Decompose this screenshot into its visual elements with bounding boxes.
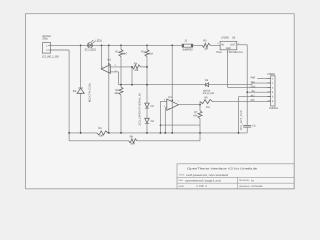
resistor R1 <box>202 40 210 51</box>
node junction IC1 output feed <box>101 44 103 46</box>
svg-text:R9: R9 <box>98 127 102 130</box>
svg-text:self-powered, non isolated: self-powered, non isolated <box>186 174 229 177</box>
node junction R4 right <box>146 66 148 68</box>
wire IC2 inverting stub <box>160 100 166 102</box>
node junction zener top <box>80 44 82 46</box>
svg-text:SIG: SIG <box>251 81 255 84</box>
node junction rail lower return <box>199 132 201 134</box>
svg-text:IC1: IC1 <box>168 96 173 99</box>
svg-text:TO92: TO92 <box>216 51 222 54</box>
resistor R4 <box>132 62 141 72</box>
node junction IC2 out <box>199 104 201 106</box>
wire CONN2 pin1 stub <box>257 77 270 79</box>
wire R4 to diode chain <box>141 66 148 68</box>
svg-text:10k: 10k <box>134 69 139 72</box>
wire divider mid line to D4 <box>119 84 206 86</box>
node junction rail IC2 power <box>171 132 173 134</box>
svg-text:JUMPER2: JUMPER2 <box>182 48 193 51</box>
title block <box>177 164 294 189</box>
node junction rail IC2 plus <box>164 132 166 134</box>
svg-text:JC3_LEDS: JC3_LEDS <box>84 49 96 52</box>
wire zener chain upper <box>80 45 82 88</box>
svg-text:CONN1: CONN1 <box>42 38 48 41</box>
resistor R3 <box>141 45 152 56</box>
wire pin5 vertical <box>238 97 240 133</box>
wire return rail up <box>199 133 201 141</box>
connector CONN2 <box>267 73 278 110</box>
svg-text:R5: R5 <box>204 96 208 99</box>
svg-text:FILE:: FILE: <box>179 179 184 182</box>
node junction rail feed <box>171 44 173 46</box>
svg-text:ECSnaith: ECSnaith <box>252 185 264 188</box>
LED LED1 <box>84 40 102 52</box>
svg-text:DRAWN BY:: DRAWN BY: <box>239 185 251 188</box>
wire top rail (OT line) <box>51 44 182 46</box>
node junction rail diode chain <box>146 132 148 134</box>
svg-text:IC1: IC1 <box>107 59 112 62</box>
wire feedback right upper <box>199 102 201 111</box>
wire CONN1 pin2 <box>51 49 69 51</box>
wire loop to rail <box>199 125 201 133</box>
node junction rail IC1 power <box>108 132 110 134</box>
svg-text:5: 5 <box>164 105 165 108</box>
svg-text:39R: 39R <box>130 143 135 146</box>
wire gnd to CONN2 pin3 <box>228 86 271 88</box>
wire ground rail lower left <box>69 132 97 134</box>
node junction diode chain mid <box>146 84 148 86</box>
svg-text:1 OF 1: 1 OF 1 <box>196 185 208 188</box>
svg-text:-: - <box>168 101 169 104</box>
node junction divider <box>120 84 122 86</box>
resistor R7 <box>193 111 202 119</box>
svg-text:JC3_OPENTHERM_IN: JC3_OPENTHERM_IN <box>139 93 142 126</box>
node junction drop join <box>131 84 133 86</box>
svg-text:1M: 1M <box>206 106 210 109</box>
wire R4 left drop <box>131 67 133 85</box>
svg-text:1M: 1M <box>149 53 153 56</box>
wire R2 bottom to divider node <box>120 57 122 87</box>
wire IC2 noninverting stub <box>165 107 167 109</box>
svg-text:U2: U2 <box>232 36 236 39</box>
node junction loop left <box>160 124 162 126</box>
svg-text:GND: GND <box>251 86 256 89</box>
wire feedback right lower <box>199 119 201 126</box>
wire +5V vertical <box>246 45 248 125</box>
node IC2 power pin <box>172 100 173 101</box>
wire IC1 output vertical <box>101 45 103 69</box>
svg-text:D3: D3 <box>151 120 155 123</box>
svg-text:JC3_ACT_5V0: JC3_ACT_5V0 <box>240 110 243 131</box>
svg-text:3k3: 3k3 <box>114 92 119 95</box>
resistor R2 <box>115 45 128 56</box>
wire R1 to U2 IN <box>210 44 220 46</box>
wire C1 bottom <box>246 127 248 133</box>
svg-text:JC3_WE_2_SID: JC3_WE_2_SID <box>42 56 59 59</box>
connector CONN1 <box>42 35 59 58</box>
svg-text:10R: 10R <box>99 135 104 138</box>
wire IC2 output <box>179 104 201 106</box>
node junction rail left <box>68 132 70 134</box>
wire feedback left <box>159 101 161 132</box>
op-amp IC2 <box>164 96 179 110</box>
node junction rail R6 <box>120 132 122 134</box>
svg-text:LP2950: LP2950 <box>221 36 229 39</box>
node junction R3 top <box>146 44 148 46</box>
node IC1 power pin <box>108 63 109 64</box>
svg-text:GND: GND <box>226 47 231 50</box>
wire IC1 inverting line <box>110 66 132 68</box>
node junction rail zener <box>80 132 82 134</box>
svg-text:OUT: OUT <box>230 43 236 46</box>
svg-text:R1: R1 <box>203 40 207 43</box>
svg-text:OpenTherm Interface V2 for Une: OpenTherm Interface V2 for Unetbule <box>187 168 258 171</box>
svg-text:4k7: 4k7 <box>123 53 128 56</box>
capacitor C1 <box>243 125 256 128</box>
svg-text:opentherm2-page1.sch: opentherm2-page1.sch <box>185 179 222 182</box>
svg-text:1: 1 <box>102 65 103 68</box>
resistor R9 <box>97 127 108 138</box>
wire zener chain lower <box>80 93 82 133</box>
wire return rail right <box>137 140 200 142</box>
svg-text:REVISION:: REVISION: <box>239 179 250 182</box>
svg-text:≡ LP2950+5.0: ≡ LP2950+5.0 <box>227 51 244 54</box>
svg-text:JC3_AC_H4D: JC3_AC_H4D <box>203 92 215 95</box>
wire IC2 power vertical <box>171 45 173 133</box>
wire +5V to CONN2 pin4 <box>247 91 271 93</box>
svg-text:IN: IN <box>221 43 224 46</box>
svg-text:R2: R2 <box>115 50 119 53</box>
node junction R4 left <box>131 66 133 68</box>
node junction R2 top <box>120 44 122 46</box>
wire D3 to rail <box>146 123 148 133</box>
node junction +5V tap <box>246 91 248 93</box>
svg-text:3: 3 <box>217 42 218 45</box>
wire D4 to CONN2 pin2 <box>209 84 252 86</box>
jumper J1 <box>182 40 193 52</box>
diode D1 zener <box>73 82 92 102</box>
node junction IC1 Vplus <box>108 44 110 46</box>
wire U2 out <box>237 44 247 46</box>
svg-text:C3: C3 <box>252 125 256 128</box>
resistor R5 <box>200 96 213 108</box>
wire rail J1 to R1 <box>193 44 202 46</box>
wire between D2 D3 <box>146 108 148 118</box>
wire IC1 power vertical <box>108 45 110 133</box>
wire IC2 noninverting down <box>164 108 166 133</box>
wire noninverting drop <box>118 72 120 85</box>
svg-text:PWR: PWR <box>251 77 256 80</box>
svg-text:XSIP6HV: XSIP6HV <box>269 107 278 110</box>
diode D2 <box>145 103 155 108</box>
regulator U2 <box>216 36 243 54</box>
wire IC1 noninverting stub <box>110 71 118 73</box>
svg-text:1M: 1M <box>204 47 208 50</box>
svg-text:+5V: +5V <box>251 90 255 93</box>
diode D4 <box>203 79 215 95</box>
svg-text:R8: R8 <box>130 135 134 138</box>
op-amp IC1 <box>101 59 116 75</box>
svg-text:7: 7 <box>178 100 179 103</box>
svg-text:PAGE:: PAGE: <box>179 185 185 188</box>
wire pin2 vertical down to lower rail <box>68 50 70 141</box>
wire R6 to rail <box>120 95 122 133</box>
svg-text:LED1: LED1 <box>95 40 102 43</box>
svg-text:1: 1 <box>238 42 239 45</box>
svg-text:AX2: AX2 <box>251 95 255 98</box>
wire R3 bottom to R4 node <box>146 57 148 104</box>
svg-text:D2: D2 <box>151 105 155 108</box>
svg-text:BZX79-C36: BZX79-C36 <box>88 82 91 102</box>
svg-text:IPD: IPD <box>251 99 255 102</box>
resistor R6 <box>114 87 123 95</box>
node junction rail pin5 <box>238 132 240 134</box>
wire return rail left <box>69 140 128 142</box>
page sheet <box>26 14 295 189</box>
svg-text:CONN2: CONN2 <box>267 73 275 76</box>
node junction rail loop left <box>160 132 162 134</box>
wire CONN2 pin5 <box>239 96 271 98</box>
svg-text:D1: D1 <box>73 90 77 93</box>
wire R5 to CONN2 pin6 <box>213 100 271 102</box>
svg-text:D4: D4 <box>205 79 209 82</box>
svg-text:TITLE:: TITLE: <box>179 174 185 177</box>
diode D3 <box>145 118 155 123</box>
wire ground rail lower right <box>108 132 247 134</box>
svg-text:47k: 47k <box>193 114 198 117</box>
resistor R8 <box>129 135 138 145</box>
wire feedback bottom <box>160 124 200 126</box>
svg-text:R3: R3 <box>141 50 145 53</box>
wire U2 gnd down <box>227 50 229 88</box>
